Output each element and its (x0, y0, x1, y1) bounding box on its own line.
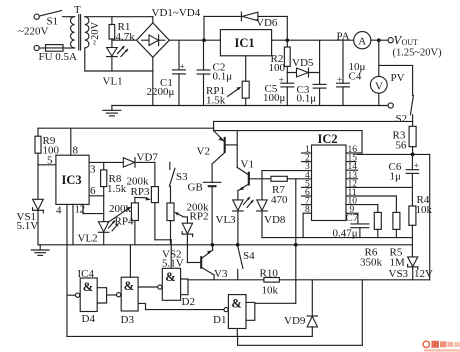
capacitor C1 (147, 40, 186, 105)
wire R8 column down to VL2 (103, 196, 105, 222)
wire secondary top rail (85, 16, 153, 18)
ground mid (31, 245, 49, 256)
svg-text:0.1μ: 0.1μ (297, 93, 317, 105)
svg-text:2200μ: 2200μ (147, 86, 175, 98)
resistor R1 (109, 17, 135, 48)
svg-text:+: + (414, 162, 419, 172)
wire IC3 pin 3 with label (89, 162, 155, 175)
svg-text:350k: 350k (360, 257, 383, 269)
svg-text:VD6: VD6 (256, 17, 278, 29)
wire R10 rail (188, 279, 430, 281)
wire bridge output to IC1 (169, 39, 220, 41)
wire secondary bottom (85, 48, 153, 71)
resistor R7 (250, 176, 312, 206)
wire IC3 pin 8 (71, 128, 79, 156)
battery GB (188, 164, 221, 245)
wire R3 node to pin area (357, 153, 430, 155)
resistor R4 (409, 194, 433, 257)
svg-text:4.7k: 4.7k (116, 31, 136, 43)
svg-text:5.1V: 5.1V (17, 220, 39, 232)
pin 9 (346, 205, 358, 224)
IC2 timer (312, 132, 347, 221)
capacitor C7 (333, 212, 369, 240)
pin 7 (302, 197, 312, 207)
transformer T (70, 4, 101, 50)
pin 15 (346, 154, 357, 164)
svg-text:R10: R10 (260, 268, 279, 280)
LED VL3 (216, 197, 254, 245)
transistor V1 (237, 159, 254, 200)
svg-text:3: 3 (90, 164, 96, 176)
svg-text:V3: V3 (214, 268, 228, 280)
wire IC1 output rail (272, 39, 354, 41)
svg-text:+: + (279, 76, 284, 86)
svg-text:8: 8 (73, 145, 79, 157)
wire IC3 pin 6 (89, 185, 104, 197)
svg-text:6: 6 (90, 185, 96, 197)
capacitor C2 (197, 40, 232, 105)
wire bottom frame (67, 280, 362, 346)
svg-text:100μ: 100μ (263, 92, 286, 104)
svg-text:OUT: OUT (402, 38, 419, 47)
svg-text:4: 4 (56, 205, 62, 217)
node R7 rail junction (294, 243, 298, 247)
svg-text:D3: D3 (121, 314, 135, 326)
wire V2 base to V1 collector (236, 131, 238, 168)
wire bridge left arm (112, 39, 137, 41)
pin 11 (346, 188, 396, 212)
resistor R9 (35, 128, 60, 165)
svg-text:470: 470 (271, 194, 288, 206)
LED VL1 (103, 46, 129, 88)
svg-text:IC3: IC3 (62, 173, 82, 187)
svg-text:V1: V1 (241, 159, 254, 171)
capacitor C3 (297, 40, 327, 105)
wire D3 to D1 (146, 309, 225, 311)
wire bridge bottom to ground rail (152, 57, 154, 105)
svg-text:A: A (358, 36, 366, 48)
transistor V3 (187, 245, 228, 280)
pin 12 (346, 179, 412, 189)
svg-text:10k: 10k (262, 285, 279, 297)
wire top rail of battery section (214, 121, 413, 130)
svg-text:VL1: VL1 (103, 76, 123, 88)
svg-text:IC4: IC4 (78, 268, 95, 280)
svg-text:D1: D1 (213, 314, 226, 326)
terminal VOUT (388, 34, 442, 59)
terminal output negative (388, 103, 393, 108)
svg-text:S2: S2 (396, 113, 408, 125)
pin 3 (305, 162, 310, 172)
bridge rectifier VD1~VD4 (137, 7, 201, 57)
wire output down to S2 branch (379, 40, 413, 95)
svg-text:&: & (165, 270, 175, 284)
svg-text:1.5k: 1.5k (206, 95, 226, 107)
svg-text:T: T (74, 4, 81, 16)
voltmeter PV (370, 72, 404, 106)
svg-text:1M: 1M (390, 257, 406, 269)
node output junction (377, 38, 381, 42)
diode VD7 (123, 152, 158, 168)
svg-text:~20V: ~20V (90, 21, 101, 45)
diode VD8 (257, 171, 312, 238)
wire R7 node vertical (295, 179, 297, 303)
potentiometer RP2 (167, 186, 209, 245)
svg-text:56: 56 (396, 140, 408, 152)
resistor R5 (390, 212, 406, 268)
diode VD6 bypass (204, 12, 287, 40)
LED VL2 (78, 220, 119, 245)
transistor V2 (197, 131, 238, 164)
pin 8 (303, 205, 311, 237)
svg-text:VD5: VD5 (292, 57, 314, 69)
svg-text:PV: PV (391, 72, 405, 84)
resistor R8 (101, 162, 127, 195)
zener VS1 (17, 165, 44, 245)
svg-text:VS3: VS3 (389, 268, 409, 280)
watermark logo (423, 341, 460, 352)
svg-text:V2: V2 (197, 146, 210, 158)
resistor R6 (360, 212, 383, 268)
resistor R10 (260, 268, 280, 297)
pin 14 (346, 162, 358, 172)
zener VS2 (162, 217, 193, 270)
wire IC3 pin 5 (38, 155, 56, 167)
gate D3 (117, 245, 158, 326)
svg-text:IC1: IC1 (235, 36, 255, 50)
svg-text:RP2: RP2 (190, 211, 209, 223)
diode VD5 (287, 57, 319, 77)
potentiometer RP3 (127, 162, 159, 239)
svg-text:8: 8 (305, 205, 310, 215)
potentiometer RP1 (206, 56, 249, 107)
wire IC3 pin 1 (73, 204, 80, 245)
pin 4 (305, 171, 310, 181)
pin 2 (302, 154, 312, 164)
svg-text:100: 100 (269, 62, 286, 74)
svg-text:+: + (180, 63, 185, 73)
pin 6 (302, 188, 312, 198)
wire RP3 to D2 (155, 239, 171, 241)
svg-text:VL2: VL2 (78, 233, 98, 245)
svg-text:(1.25~20V): (1.25~20V) (393, 48, 443, 59)
wire mid rail (38, 244, 412, 246)
svg-text:S4: S4 (243, 250, 255, 262)
svg-text:S3: S3 (176, 171, 188, 183)
switch S3 (169, 162, 188, 186)
resistor R2 (269, 40, 291, 74)
capacitor C5 (263, 73, 294, 106)
gate D2 (158, 240, 195, 308)
svg-text:D4: D4 (82, 313, 96, 325)
svg-text:1.5k: 1.5k (107, 183, 127, 195)
capacitor C6 (389, 154, 419, 206)
svg-text:RP4: RP4 (115, 216, 134, 228)
svg-text:VD9: VD9 (284, 315, 306, 327)
svg-text:2: 2 (80, 204, 86, 216)
zener VS3 (389, 257, 434, 280)
pin 16 (346, 131, 362, 155)
svg-text:GB: GB (188, 182, 203, 194)
diode VD9 (284, 280, 318, 337)
node junction R2 (286, 38, 290, 42)
svg-text:0.1μ: 0.1μ (213, 71, 233, 83)
fuse FU 0.5A (34, 45, 77, 63)
svg-text:D2: D2 (182, 296, 195, 308)
svg-text:1μ: 1μ (390, 171, 402, 183)
wire IC3 pin 4 / left frame (56, 204, 67, 336)
svg-text:VD1~VD4: VD1~VD4 (152, 7, 201, 19)
pin 13 (346, 171, 358, 181)
pin 10 (346, 197, 378, 213)
node R3 junction (411, 153, 415, 157)
switch S4 (238, 246, 255, 280)
pin 5 (302, 179, 312, 189)
switch S2 (396, 96, 414, 127)
svg-text:&: & (124, 279, 134, 293)
svg-text:5.1V: 5.1V (162, 258, 184, 270)
switch S1 (34, 11, 69, 28)
svg-text:&: & (231, 297, 241, 311)
svg-text:1: 1 (75, 204, 81, 216)
pin 1 (302, 145, 312, 155)
svg-text:0.47μ: 0.47μ (333, 228, 358, 240)
regulator IC1 (220, 30, 271, 56)
capacitor C4 (337, 40, 366, 105)
resistor R3 (393, 126, 417, 154)
svg-text:C4: C4 (349, 71, 362, 83)
svg-text:200k: 200k (109, 203, 132, 215)
svg-text:&: & (83, 280, 93, 294)
svg-text:VD8: VD8 (264, 214, 286, 226)
svg-text:~220V: ~220V (18, 26, 48, 38)
svg-text:FU 0.5A: FU 0.5A (39, 51, 78, 63)
svg-text:IC2: IC2 (318, 132, 338, 146)
svg-text:5: 5 (47, 155, 53, 167)
svg-text:PA: PA (337, 31, 350, 43)
gate D1 (213, 295, 296, 337)
ammeter PA (337, 31, 389, 49)
node VL3 junction (236, 243, 240, 247)
svg-text:+: + (337, 76, 342, 86)
wire left supply middle section (38, 127, 214, 129)
wire IC3 pin 2 jog (80, 204, 104, 216)
svg-text:RP3: RP3 (131, 186, 150, 198)
wire right frame vertical (429, 154, 431, 279)
node V3 emitter junction (211, 243, 215, 247)
ground rail (112, 105, 388, 107)
svg-text:VD7: VD7 (137, 152, 159, 164)
op-amp IC3 (56, 155, 89, 204)
node junction at C2 column (202, 38, 206, 42)
svg-text:VL3: VL3 (216, 214, 237, 226)
gate D4 (67, 268, 116, 325)
wire lower collect rail (262, 237, 412, 239)
svg-text:C7: C7 (346, 212, 359, 224)
ground (103, 106, 121, 116)
potentiometer RP4 (108, 198, 138, 245)
svg-text:V: V (375, 80, 383, 92)
